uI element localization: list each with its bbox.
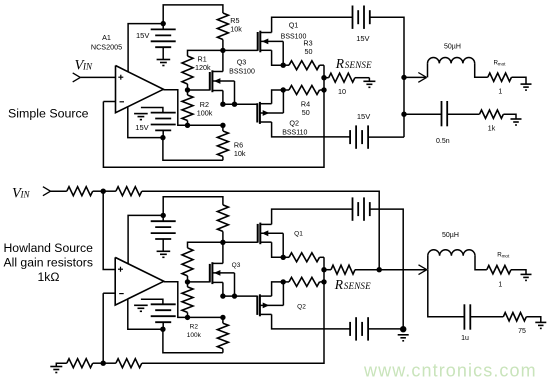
- label R6 10k: [234, 140, 246, 158]
- wire Q3 drain up: [222, 50, 224, 71]
- ground (below V1): [157, 60, 171, 66]
- wire op-amp V+ supply: [128, 24, 163, 72]
- svg-text:SENSE: SENSE: [345, 60, 372, 70]
- label Rmot (bottom): [497, 252, 510, 259]
- svg-text:Q3: Q3: [237, 58, 247, 67]
- resistor R5 (bottom): [217, 205, 228, 232]
- wire op-amp output rail (bottom): [164, 282, 188, 318]
- wire Q2 body up: [282, 90, 284, 113]
- svg-text:Q1: Q1: [294, 230, 303, 237]
- battery top rail (bottom ckt): [353, 197, 370, 220]
- node Q3 source junction (bottom): [220, 293, 225, 298]
- wire Q3 drain up (bottom): [222, 242, 224, 263]
- battery negative supply (bottom ckt): [141, 299, 176, 322]
- transistor Q3 BSS100: [210, 70, 235, 92]
- ground (Rmot top): [521, 84, 532, 90]
- resistor R2 100k: [182, 95, 193, 121]
- label 50uH (bottom): [442, 232, 459, 239]
- svg-text:Q3: Q3: [232, 262, 241, 269]
- wire battery to ground (bottom): [162, 239, 164, 251]
- label 50uH (top): [444, 44, 461, 51]
- label Q1 (bottom): [294, 230, 303, 237]
- svg-text:A1: A1: [102, 33, 111, 42]
- svg-text:10k: 10k: [234, 149, 246, 158]
- wire Q1 drain to +15V rail: [272, 17, 353, 32]
- resistor R3 (bottom): [283, 253, 324, 262]
- wire output to snubber cap: [404, 113, 442, 115]
- transistor Q1 BSS100: [258, 31, 284, 53]
- wire V3 to output rail: [370, 17, 404, 137]
- svg-text:1k: 1k: [488, 125, 496, 132]
- wire Q2 body up (bottom): [282, 282, 284, 306]
- node Q1 source/R3: [281, 62, 286, 67]
- node R6 top (bottom): [220, 315, 225, 320]
- op-amp (Howland): [115, 257, 164, 305]
- label 1 (bottom): [498, 282, 502, 289]
- svg-text:15V: 15V: [135, 123, 148, 132]
- node R5/R1/Q3 (bottom): [220, 240, 225, 245]
- node Q3 body junction (bottom): [232, 293, 237, 298]
- label 15V (V3): [356, 34, 369, 43]
- svg-text:R: R: [334, 277, 344, 292]
- label 75: [518, 328, 526, 335]
- wire output with arrow (bottom): [379, 265, 427, 275]
- node R4 right: [321, 87, 326, 92]
- wire load lower branch (bottom): [428, 270, 465, 317]
- wire VIN input arrow: [73, 73, 116, 82]
- node battery bottom junction (bottom): [160, 327, 165, 332]
- node noninverting tap: [101, 189, 106, 194]
- resistor R2 100k (bottom): [182, 287, 193, 313]
- wire R2 leads: [187, 90, 189, 125]
- wire Q3 gate lead (bottom): [188, 281, 210, 283]
- label 15V (V1): [136, 31, 149, 40]
- resistor Rmot (bottom load): [487, 266, 526, 275]
- wire Q2 source up: [272, 90, 284, 104]
- svg-text:100k: 100k: [197, 108, 213, 117]
- svg-text:10: 10: [338, 87, 346, 96]
- wire Q3 gate lead: [188, 89, 210, 91]
- node output top: [401, 75, 406, 80]
- wire inverting drop (bottom): [102, 293, 104, 363]
- wire battery bottom stem (bottom): [162, 322, 164, 329]
- ground (battery top, bottom ckt): [134, 305, 148, 311]
- label RSENSE (bottom): [334, 277, 371, 292]
- svg-text:mot: mot: [498, 61, 506, 66]
- wire R1 bottom (bottom): [187, 276, 189, 282]
- svg-text:Q2: Q2: [289, 119, 299, 128]
- svg-text:120k: 120k: [195, 63, 211, 72]
- node Q3 body junction: [232, 102, 237, 107]
- wire battery top lead (bottom): [162, 215, 164, 221]
- label 0.5n: [436, 138, 450, 145]
- inductor 50uH (bottom load): [428, 250, 487, 270]
- svg-text:15V: 15V: [356, 34, 369, 43]
- wire op-amp output to feedback rail: [163, 90, 187, 126]
- wire to node: [93, 190, 104, 192]
- node Q2 source/R4 (bottom): [281, 279, 286, 284]
- wire Q1 body down: [282, 41, 284, 65]
- resistor R3 50: [283, 61, 324, 70]
- wire Q1 body down (bottom): [282, 233, 284, 257]
- battery V2 15V (negative supply): [141, 108, 176, 131]
- svg-text:50: 50: [302, 108, 310, 117]
- svg-text:15V: 15V: [357, 112, 370, 121]
- wire Q2 drain to -15V: [272, 122, 351, 137]
- label Q1 BSS100: [281, 21, 307, 41]
- wire feedback down-left: [103, 65, 324, 167]
- resistor R4 (bottom): [283, 277, 324, 286]
- wire VIN arrow (bottom): [43, 187, 67, 196]
- label Q3 BSS100: [229, 58, 255, 76]
- svg-text:1: 1: [498, 88, 502, 95]
- ground (bottom rail): [50, 363, 67, 372]
- wire R2 leads (bottom): [187, 282, 189, 318]
- node VIN (bottom input): [12, 186, 30, 202]
- ground (below battery, bottom ckt): [157, 251, 171, 257]
- svg-text:Q1: Q1: [289, 21, 299, 30]
- wire inverting input (bottom): [103, 292, 115, 294]
- resistor RSENSE 10: [324, 73, 369, 82]
- node R4 right (bottom): [321, 279, 326, 284]
- svg-text:R: R: [335, 56, 345, 71]
- capacitor 1u: [464, 304, 470, 329]
- resistor R5 10k: [217, 13, 228, 40]
- svg-text:mot: mot: [502, 253, 510, 258]
- label R5 10k: [230, 16, 242, 34]
- label 1 (top): [498, 88, 502, 95]
- battery V1 15V (positive supply): [151, 29, 176, 47]
- wire Q1 gate lead (bottom): [223, 241, 258, 243]
- resistor 75 (bottom): [503, 313, 541, 323]
- wire Q3 body down: [234, 81, 236, 104]
- svg-text:IN: IN: [20, 190, 31, 200]
- wire Q3 source down (bottom): [222, 282, 224, 296]
- resistor feedback 1k (b): [103, 187, 142, 196]
- ground (75 resistor): [535, 322, 546, 328]
- svg-text:www.cntronics.com: www.cntronics.com: [363, 361, 537, 381]
- node RSENSE tap (bottom): [321, 267, 326, 272]
- svg-text:NCS2005: NCS2005: [91, 43, 122, 52]
- resistor 1k (snubber): [480, 110, 517, 119]
- wire inverting input: [103, 101, 115, 103]
- wire Q1 source down: [272, 50, 284, 65]
- svg-text:50µH: 50µH: [442, 232, 459, 239]
- wire top rail to R5: [163, 5, 223, 24]
- svg-text:Howland Source: Howland Source: [4, 241, 94, 255]
- node R5/R1/Q3-drain/Q1-gate: [220, 48, 225, 53]
- label Rmot (top): [494, 60, 507, 67]
- resistor input 1k (a): [67, 187, 93, 196]
- battery V4 15V (bottom rail): [350, 125, 368, 148]
- wire R6 bottom to battery node (bottom): [163, 329, 223, 353]
- label R2 100k: [197, 100, 213, 117]
- wire op-amp V- supply (bottom): [128, 299, 163, 330]
- label 15V (V4): [357, 112, 370, 121]
- node battery top junction (bottom): [161, 213, 166, 218]
- resistor RSENSE (bottom): [324, 265, 379, 274]
- resistor Rmot 1 (top load): [488, 73, 526, 84]
- node inverting tap: [101, 361, 106, 366]
- wire top rail to R5 (bottom): [163, 197, 223, 216]
- wire Q2 source up (bottom): [272, 282, 284, 296]
- label R4 50: [301, 100, 310, 117]
- label 10: [338, 87, 346, 96]
- svg-text:0.5n: 0.5n: [436, 138, 450, 145]
- label Q2 BSS110: [282, 119, 307, 137]
- wire rail right (bottom ckt): [370, 209, 404, 329]
- wire cap to 1k: [447, 113, 479, 115]
- battery V3 15V (top rail): [353, 6, 370, 29]
- ground (RSENSE): [363, 81, 375, 87]
- wire R5 bottom: [222, 40, 224, 51]
- node output (bottom): [377, 267, 382, 272]
- wire op-amp V- supply: [128, 107, 163, 138]
- svg-text:R2: R2: [190, 324, 199, 331]
- svg-text:50: 50: [305, 47, 313, 56]
- wire battery to ground rail (bottom): [368, 328, 403, 330]
- wire V2 bottom stem: [162, 131, 164, 138]
- op-amp A1: [116, 66, 164, 113]
- wire positive feedback: [142, 191, 379, 270]
- transistor Q1 (bottom): [258, 223, 284, 245]
- node RSENSE tap: [321, 75, 326, 80]
- wire rail to R6 (bottom): [188, 316, 223, 318]
- wire output with arrow: [404, 73, 427, 83]
- svg-text:15V: 15V: [136, 31, 149, 40]
- label R3 50: [303, 39, 312, 56]
- ground (Rmot bottom): [521, 274, 532, 280]
- node R1/R2/Q3-gate (bottom): [185, 279, 190, 284]
- wire Q3 to Q2 gate (bottom): [223, 295, 257, 297]
- resistor R6 (bottom): [217, 317, 228, 352]
- node R1/R2/Q3-gate: [185, 87, 190, 92]
- label R2 100k (bottom): [187, 324, 202, 339]
- wire Q1 gate lead: [223, 49, 258, 51]
- resistor R4 50: [283, 86, 324, 95]
- label Simple Source: [8, 106, 89, 120]
- label A1 NCS2005: [91, 33, 122, 52]
- wire to inverting node: [93, 362, 104, 364]
- node Q3 source junction: [220, 102, 225, 107]
- wire op-amp V+ supply (bottom): [128, 215, 163, 263]
- resistor gain 1k (c): [67, 359, 93, 368]
- transistor Q2 (bottom): [257, 294, 283, 316]
- wire R1 bottom: [187, 84, 189, 90]
- node Q2 source/R4: [281, 87, 286, 92]
- battery bottom rail (bottom ckt): [350, 317, 368, 340]
- wire Q3 source down: [222, 91, 224, 105]
- wire V4 to output rail: [368, 136, 404, 138]
- wire Q3 body down (bottom): [234, 273, 236, 296]
- label Howland Source: [4, 241, 94, 284]
- capacitor 0.5n: [442, 101, 448, 126]
- node output bottom: [401, 112, 406, 117]
- label RSENSE: [335, 56, 372, 71]
- label Q2 (bottom): [297, 303, 306, 310]
- node ground rail (bottom): [400, 326, 406, 332]
- wire RSENSE to ground: [368, 78, 370, 82]
- wire R5 bottom (bottom): [222, 231, 224, 242]
- node R2 bottom: [185, 123, 190, 128]
- svg-text:10k: 10k: [230, 24, 242, 33]
- svg-text:BSS100: BSS100: [229, 69, 255, 76]
- ground (1k): [511, 119, 522, 125]
- wire Q1 drain to rail (bottom): [272, 209, 353, 224]
- wire negative feedback rail: [142, 257, 324, 363]
- label 1k: [488, 125, 496, 132]
- node R2 bottom (bottom): [185, 315, 190, 320]
- wire + input drop: [103, 191, 115, 269]
- wire Q2 drain to battery (bottom): [272, 314, 351, 329]
- battery positive supply (bottom ckt): [151, 221, 176, 239]
- svg-text:1u: 1u: [461, 335, 469, 342]
- wire node to R1 (bottom): [188, 242, 223, 248]
- resistor R6 10k: [217, 125, 228, 160]
- label 15V (V2): [135, 123, 148, 132]
- svg-text:Simple Source: Simple Source: [8, 106, 89, 120]
- wire Q3 to Q2 gate: [223, 103, 257, 105]
- transistor Q2 BSS110: [257, 102, 283, 124]
- resistor gain 1k (d): [103, 359, 142, 368]
- inductor 50uH (top load): [428, 57, 488, 77]
- node Q1 source/R3 (bottom): [281, 255, 286, 260]
- svg-text:SENSE: SENSE: [344, 281, 371, 291]
- transistor Q3 (bottom): [210, 262, 235, 284]
- label 1u: [461, 335, 469, 342]
- wire cap to 75: [470, 316, 503, 318]
- wire V1 to ground: [162, 47, 164, 59]
- svg-text:BSS110: BSS110: [282, 129, 307, 136]
- wire rail to R6: [188, 124, 223, 126]
- resistor R1 120k: [182, 56, 193, 84]
- svg-text:Q2: Q2: [297, 303, 306, 310]
- svg-text:50µH: 50µH: [444, 44, 461, 51]
- watermark www.cntronics.com: [363, 361, 537, 381]
- wire R6 bottom to battery node: [163, 138, 223, 161]
- node battery top junction: [161, 21, 166, 26]
- label R1 120k: [195, 55, 211, 73]
- resistor R1 (bottom): [182, 248, 193, 276]
- svg-text:IN: IN: [82, 62, 93, 72]
- svg-text:1: 1: [498, 282, 502, 289]
- svg-text:75: 75: [518, 328, 526, 335]
- ground (output rail, bottom): [398, 335, 409, 341]
- ground (V2 top): [134, 114, 148, 120]
- svg-text:All gain resistors: All gain resistors: [4, 255, 93, 269]
- node V2 bottom junction: [160, 135, 165, 140]
- node VIN (top input): [75, 58, 93, 74]
- wire node to R1 top: [188, 50, 223, 56]
- svg-text:100k: 100k: [187, 332, 202, 339]
- wire battery V1 top lead: [162, 24, 164, 30]
- node R6 top: [220, 123, 225, 128]
- label Q3 (bottom): [232, 262, 241, 269]
- wire Q1 source down (bottom): [272, 242, 284, 257]
- svg-text:1kΩ: 1kΩ: [38, 270, 60, 284]
- svg-text:R6: R6: [234, 140, 243, 149]
